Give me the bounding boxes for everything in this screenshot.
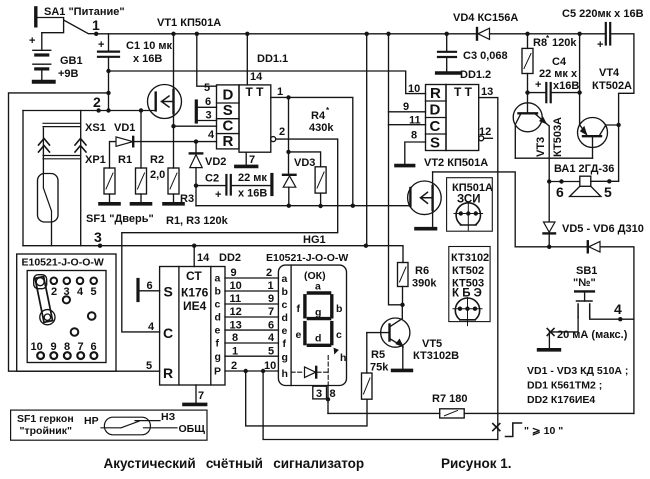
svg-text:e: e: [215, 325, 221, 337]
wire: rail A (bottom ground rail): [328, 412, 634, 414]
svg-text:D: D: [430, 102, 441, 119]
wire: VT2 drain to VD5 rail: [433, 172, 516, 247]
socket pin rings bottom: [37, 352, 97, 359]
svg-text:ОБЩ: ОБЩ: [179, 423, 206, 435]
svg-text:"тройник": "тройник": [20, 425, 72, 437]
svg-text:ИЕ4: ИЕ4: [183, 299, 207, 313]
svg-text:8: 8: [330, 388, 336, 400]
svg-text:5: 5: [91, 286, 97, 298]
svg-text:Рисунок 1.: Рисунок 1.: [441, 456, 512, 471]
svg-text:VD1: VD1: [114, 122, 135, 134]
wire: DD1.2 pin8 to ground: [405, 142, 426, 164]
svg-text:f: f: [283, 338, 287, 350]
node: C1 bottom junction: [106, 69, 110, 73]
trigger DD1.1 (K561TM2): [217, 34, 271, 152]
svg-text:6: 6: [91, 341, 97, 353]
svg-text:КТ3102: КТ3102: [451, 252, 489, 264]
svg-text:b: b: [282, 286, 288, 298]
trigger DD1.2: [426, 85, 479, 151]
svg-text:14: 14: [250, 71, 263, 83]
diode VD4 (zener KC156A): [477, 28, 490, 40]
inverter circle (DD1.1 pin2): [271, 137, 276, 142]
svg-text:11: 11: [409, 115, 421, 127]
svg-text:9: 9: [403, 101, 409, 113]
svg-text:5: 5: [604, 184, 612, 200]
svg-text:R1, R3 120k: R1, R3 120k: [166, 215, 229, 227]
svg-text:НЗ: НЗ: [161, 411, 176, 423]
diode VD2: [190, 142, 202, 206]
svg-text:d: d: [215, 312, 221, 324]
svg-text:3: 3: [64, 286, 70, 298]
node: R-pin junction with VD2: [194, 139, 198, 143]
svg-text:a: a: [215, 273, 221, 285]
wire: gate rail (VD2/C2/VD3/R4 to VT2 gate): [196, 205, 410, 207]
svg-text:СТ: СТ: [186, 269, 202, 283]
svg-text:11: 11: [230, 293, 242, 305]
svg-text:390k: 390k: [412, 278, 437, 290]
ground (R3): [164, 202, 183, 206]
ground (DD1.2 pin8): [396, 164, 414, 168]
pin1 pad with jumper link: [34, 275, 55, 325]
svg-text:2: 2: [51, 286, 57, 298]
ground (DD1.1 pin7): [236, 152, 257, 166]
wire: node1 down to C1: [108, 34, 110, 51]
wire: +9V top rail: [96, 33, 605, 35]
svg-text:9: 9: [231, 267, 237, 279]
svg-text:+9В: +9В: [58, 68, 79, 80]
svg-text:VT1 КП501А: VT1 КП501А: [157, 17, 221, 29]
svg-text:d: d: [282, 312, 288, 324]
resistor R4: [315, 167, 326, 206]
svg-text:DD1 К561ТМ2 ;: DD1 К561ТМ2 ;: [527, 380, 602, 392]
transistor VT2 (MOSFET KP501A): [408, 172, 442, 227]
node: R8/C4/VT3 base: [525, 90, 529, 94]
svg-text:22 мк х: 22 мк х: [539, 68, 578, 80]
svg-text:e: e: [282, 325, 288, 337]
diode VD3: [283, 175, 296, 206]
svg-text:R3: R3: [180, 193, 194, 205]
wire: C1 bottom to DD1.2 pin10: [109, 71, 426, 94]
svg-text:НР: НР: [84, 415, 99, 427]
svg-text:C1 10 мк: C1 10 мк: [126, 40, 173, 52]
wire: VT3 collector to VT4 base: [515, 157, 592, 159]
svg-text:VD1 - VD3 КД 510А ;: VD1 - VD3 КД 510А ;: [527, 365, 628, 377]
svg-text:XP1: XP1: [85, 154, 106, 166]
svg-text:" ⩾ 10 ": " ⩾ 10 ": [524, 425, 563, 437]
svg-text:C3 0,068: C3 0,068: [463, 50, 508, 62]
transistor VT3 (KT503A): [513, 103, 549, 182]
svg-text:6: 6: [205, 96, 211, 108]
connector XS1/XP1 box: [23, 111, 86, 246]
wire: DD1.1 pin1 to gate rail: [271, 97, 353, 205]
svg-text:5: 5: [146, 360, 152, 372]
svg-text:2,0: 2,0: [150, 169, 165, 181]
svg-text:7: 7: [249, 154, 255, 166]
node 2: [96, 108, 100, 112]
svg-text:КТ502: КТ502: [452, 265, 484, 277]
measuring point x (>=10): [493, 424, 500, 431]
svg-text:10: 10: [264, 360, 276, 372]
svg-text:E10521-J-O-O-W: E10521-J-O-O-W: [22, 257, 104, 269]
svg-text:75k: 75k: [370, 362, 389, 374]
svg-text:"№": "№": [573, 277, 596, 289]
resistor R5: [362, 333, 373, 400]
svg-text:4: 4: [614, 301, 622, 317]
svg-text:C: C: [223, 118, 234, 135]
svg-text:b: b: [215, 286, 221, 298]
svg-text:ЗСИ: ЗСИ: [457, 194, 481, 206]
svg-text:9: 9: [51, 341, 57, 353]
box KT3102 pinout: [449, 247, 490, 326]
svg-text:S: S: [164, 284, 173, 300]
resistor R3: [168, 168, 179, 203]
svg-text:ВА1 2ГД-36: ВА1 2ГД-36: [554, 163, 614, 175]
svg-text:DD2: DD2: [219, 252, 241, 264]
svg-text:5: 5: [204, 82, 210, 94]
diode VD1: [110, 137, 217, 168]
socket E10521 pinout box: [17, 254, 116, 371]
wire: HG1 pins 3,8 to rail A: [327, 386, 329, 414]
svg-text:g: g: [315, 307, 321, 319]
svg-text:VT4: VT4: [599, 67, 620, 79]
svg-text:14: 14: [197, 252, 210, 264]
svg-text:К176: К176: [181, 286, 209, 300]
svg-text:HG1: HG1: [303, 234, 326, 246]
svg-text:12: 12: [230, 306, 242, 318]
ground bar (DD2 pin6 S): [136, 280, 139, 301]
wire: DD1.2 pin9 branch: [389, 111, 426, 113]
svg-text:Акустический счётный сигнали: Акустический счётный сигнализатор: [104, 456, 365, 471]
svg-text:P: P: [214, 366, 221, 378]
svg-text:e: e: [296, 329, 302, 341]
svg-text:4: 4: [148, 321, 155, 333]
measuring point x (20 mA): [547, 329, 554, 336]
svg-text:7: 7: [268, 306, 274, 318]
svg-text:1: 1: [268, 280, 274, 292]
wire: long loop to DD2 pin5 (R): [9, 93, 160, 371]
svg-text:9: 9: [268, 293, 274, 305]
ground (battery minus): [34, 80, 54, 84]
svg-text:22 мк: 22 мк: [238, 172, 267, 184]
svg-text:К Б Э: К Б Э: [452, 288, 482, 300]
svg-text:R: R: [223, 133, 234, 150]
svg-text:х 16В: х 16В: [133, 53, 162, 65]
svg-text:c: c: [282, 299, 288, 311]
svg-text:6: 6: [147, 280, 153, 292]
ground (R1): [100, 202, 119, 206]
svg-text:4: 4: [208, 129, 215, 141]
svg-text:+: +: [29, 35, 35, 47]
svg-text:a: a: [315, 281, 321, 293]
svg-text:КТ3102В: КТ3102В: [413, 350, 459, 362]
svg-text:8: 8: [64, 341, 70, 353]
svg-text:2: 2: [93, 94, 101, 110]
svg-text:+: +: [215, 189, 221, 201]
wire: VD3/R4 riser: [288, 97, 290, 174]
svg-text:b: b: [336, 303, 342, 315]
svg-text:c: c: [336, 329, 342, 341]
transistor VT4 (KT502A): [577, 32, 618, 159]
svg-text:g: g: [282, 351, 288, 363]
svg-text:КТ503А: КТ503А: [552, 117, 564, 157]
resistor R1: [104, 168, 115, 203]
svg-text:4: 4: [268, 332, 275, 344]
wire: DD1.2 pin13 long line: [479, 98, 498, 440]
svg-text:C: C: [163, 325, 173, 341]
svg-text:2: 2: [266, 267, 272, 279]
svg-text:c: c: [215, 299, 221, 311]
svg-text:8: 8: [411, 130, 417, 142]
node 4: [618, 317, 622, 321]
pushbutton SB1: [549, 291, 634, 348]
capacitor C2: [196, 175, 270, 195]
capacitor C1: [98, 52, 119, 111]
svg-text:h: h: [340, 352, 346, 364]
svg-text:R1: R1: [118, 154, 132, 166]
svg-text:VD2: VD2: [205, 156, 226, 168]
svg-text:2: 2: [231, 360, 237, 372]
svg-text:VD4 КС156А: VD4 КС156А: [453, 12, 518, 24]
svg-text:Т Т: Т Т: [246, 85, 265, 99]
ground bar (C2 right): [270, 175, 273, 195]
svg-text:f: f: [297, 303, 301, 315]
wire: rail C (to DD1.2 pin13 line): [263, 371, 498, 440]
svg-text:R: R: [430, 85, 441, 102]
diode VD5: [544, 182, 556, 247]
ground (VT5 emitter): [393, 369, 412, 373]
wire: DD1.1 pin5 riser: [197, 34, 217, 86]
svg-text:SF1 геркон: SF1 геркон: [17, 413, 74, 425]
svg-text:1: 1: [277, 86, 283, 98]
svg-text:a: a: [282, 273, 288, 285]
svg-text:+: +: [597, 39, 603, 51]
wire: R2 riser: [140, 111, 142, 169]
svg-text:20 мА (макс.): 20 мА (макс.): [557, 329, 628, 341]
svg-text:3: 3: [206, 110, 212, 122]
svg-text:SA1 "Питание": SA1 "Питание": [44, 6, 125, 18]
svg-text:R6: R6: [415, 265, 429, 277]
svg-text:R7 180: R7 180: [432, 393, 467, 405]
svg-text:3: 3: [316, 388, 322, 400]
svg-text:7: 7: [198, 390, 204, 402]
svg-text:S: S: [223, 102, 233, 119]
wire: R4 top tee: [289, 152, 321, 167]
wire: node2 rail to VT1 gate: [23, 110, 156, 112]
svg-text:VT5: VT5: [422, 338, 442, 350]
svg-text:Т Т: Т Т: [454, 85, 473, 99]
svg-text:R: R: [163, 365, 173, 381]
box SF1 reed switch legend: [11, 410, 207, 440]
svg-text:430k: 430k: [309, 122, 334, 134]
svg-text:10: 10: [230, 280, 242, 292]
svg-text:*: *: [326, 106, 330, 115]
loudspeaker BA1: [570, 176, 619, 196]
svg-text:E10521-J-O-O-W: E10521-J-O-O-W: [266, 252, 348, 264]
node: VT1 source to DD1.1 C: [171, 124, 175, 128]
svg-text:C4: C4: [552, 56, 567, 68]
svg-text:+: +: [535, 79, 541, 91]
ground (SB1): [539, 348, 560, 352]
svg-text:12: 12: [479, 126, 491, 138]
svg-text:*: *: [546, 34, 550, 43]
svg-text:S: S: [430, 135, 440, 152]
svg-text:f: f: [216, 338, 220, 350]
ground (VT2 source): [416, 227, 436, 231]
diode VD6: [588, 241, 600, 252]
counter DD2 (K176IE4): [160, 246, 225, 385]
svg-text:КП501А: КП501А: [452, 182, 493, 194]
svg-text:g: g: [215, 351, 221, 363]
svg-text:R2: R2: [150, 154, 164, 166]
svg-text:DD1.2: DD1.2: [460, 69, 491, 81]
wire: rail B (P output to R5): [246, 371, 367, 426]
svg-text:х16В: х16В: [553, 80, 579, 92]
svg-text:C2: C2: [205, 173, 219, 185]
wires: DD2 outputs a-g,P to HG1: [225, 278, 278, 371]
socket pin rings top: [51, 278, 97, 336]
svg-text:1: 1: [92, 17, 100, 33]
node 1: [94, 32, 98, 36]
svg-text:6: 6: [556, 184, 564, 200]
svg-text:х 16В: х 16В: [238, 188, 267, 200]
svg-text:10: 10: [31, 341, 43, 353]
svg-text:4: 4: [77, 286, 84, 298]
svg-text:VT2 КП501А: VT2 КП501А: [424, 157, 488, 169]
svg-text:SF1 "Дверь": SF1 "Дверь": [86, 213, 154, 225]
box KP501A pinout: [447, 178, 493, 232]
wire: VD6 rail: [515, 247, 634, 414]
resistor R2: [136, 168, 147, 203]
svg-text:КТ502А: КТ502А: [592, 80, 632, 92]
svg-text:C: C: [430, 118, 441, 135]
svg-text:R8: R8: [533, 37, 547, 49]
HG1 pin 3 box: [313, 386, 327, 399]
svg-text:h: h: [282, 368, 288, 380]
svg-text:XS1: XS1: [85, 122, 106, 134]
resistor R8: [522, 32, 533, 114]
wire: DD1.2 pin11 branch: [389, 124, 426, 126]
svg-text:VD3: VD3: [294, 157, 315, 169]
svg-text:DD1.1: DD1.1: [257, 53, 288, 65]
7-segment digit: [305, 293, 338, 354]
wire: node3 +9V rail to R6: [23, 246, 403, 263]
svg-text:8: 8: [232, 332, 238, 344]
capacitor C5: [606, 23, 634, 181]
svg-text:VT3: VT3: [535, 137, 547, 157]
resistor R6: [398, 263, 409, 305]
svg-text:7: 7: [78, 341, 84, 353]
svg-text:5: 5: [268, 345, 274, 357]
logic level step symbol: [506, 423, 522, 437]
svg-text:1: 1: [232, 345, 238, 357]
capacitor C4: [528, 83, 580, 102]
wire: top rail to node3 rail: [366, 34, 368, 246]
diode (HG1 internal, dashed h line): [291, 356, 328, 386]
capacitor C3: [438, 32, 456, 72]
svg-text:R4: R4: [311, 110, 326, 122]
svg-text:R5: R5: [371, 349, 385, 361]
wire: DD2 pin6: [140, 290, 160, 292]
svg-text:13: 13: [481, 86, 493, 98]
svg-text:GB1: GB1: [60, 55, 83, 67]
node: loop tap: [106, 91, 110, 95]
node 3: [98, 244, 102, 248]
display HG1 (E10521): [278, 265, 346, 385]
wire: pin12 stub: [484, 137, 493, 139]
svg-text:10: 10: [408, 83, 420, 95]
transistor VT5 (KT3102V): [367, 305, 410, 370]
svg-text:D: D: [223, 87, 234, 104]
ground (DD2 pin7): [184, 385, 206, 404]
svg-text:6: 6: [268, 319, 274, 331]
transistor VT1 (MOSFET): [148, 32, 250, 168]
inverter circle (DD1.2 pin12): [479, 136, 484, 141]
svg-text:VD5 - VD6 Д310: VD5 - VD6 Д310: [562, 223, 644, 235]
reed switch SF1 body: [38, 174, 59, 246]
svg-text:SB1: SB1: [576, 265, 597, 277]
svg-text:C5 220мк х 16В: C5 220мк х 16В: [562, 8, 644, 20]
switch SA1: [36, 8, 96, 34]
wire: top rail down to R6 bottom junction: [389, 34, 403, 305]
svg-text:d: d: [315, 333, 321, 345]
svg-text:+: +: [98, 39, 104, 51]
resistor R7: [440, 409, 465, 418]
svg-text:120k: 120k: [552, 37, 577, 49]
ground (R2): [132, 202, 151, 206]
battery GB1: [33, 33, 51, 80]
svg-text:2: 2: [279, 126, 285, 138]
svg-text:DD2 К176ИЕ4: DD2 К176ИЕ4: [527, 394, 595, 406]
wire: DD1.1 pin2 to DD2 pin4 (C): [122, 139, 338, 332]
svg-text:3: 3: [94, 229, 102, 245]
svg-text:13: 13: [230, 319, 242, 331]
ground (C3): [437, 71, 460, 75]
ground bar (DD1.1 pins 6,3): [195, 101, 198, 122]
wire: speaker left / VT3 emitter node: [547, 179, 551, 183]
